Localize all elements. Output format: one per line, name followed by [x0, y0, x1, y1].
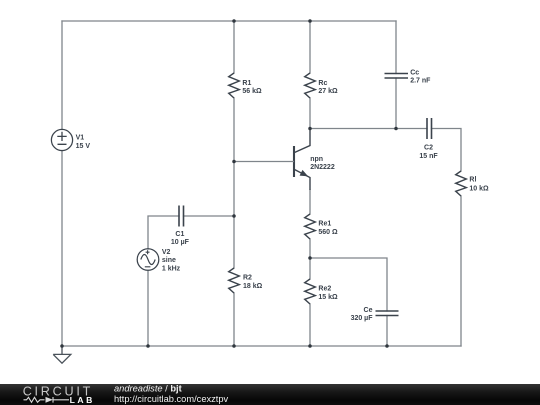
- svg-text:560 Ω: 560 Ω: [318, 229, 338, 236]
- svg-text:LAB: LAB: [70, 395, 95, 405]
- svg-text:2.7 nF: 2.7 nF: [410, 78, 431, 85]
- svg-text:Rc: Rc: [318, 80, 327, 87]
- svg-text:andreadiste / bjt: andreadiste / bjt: [114, 384, 182, 393]
- svg-text:18 kΩ: 18 kΩ: [243, 283, 263, 290]
- svg-text:320 µF: 320 µF: [351, 315, 374, 322]
- svg-text:15 kΩ: 15 kΩ: [318, 294, 338, 301]
- svg-text:2N2222: 2N2222: [310, 164, 335, 171]
- svg-text:V1: V1: [76, 134, 85, 141]
- svg-text:1 kHz: 1 kHz: [162, 265, 181, 272]
- svg-text:15 nF: 15 nF: [419, 153, 438, 160]
- svg-text:http://circuitlab.com/cexztpv: http://circuitlab.com/cexztpv: [114, 394, 229, 404]
- svg-text:Re2: Re2: [318, 286, 331, 293]
- svg-text:C2: C2: [424, 144, 433, 151]
- svg-text:npn: npn: [310, 156, 323, 163]
- svg-text:10 kΩ: 10 kΩ: [469, 186, 489, 193]
- svg-text:Cc: Cc: [410, 69, 419, 76]
- svg-text:15 V: 15 V: [76, 143, 91, 150]
- svg-text:Ce: Ce: [364, 307, 373, 314]
- svg-text:Re1: Re1: [318, 221, 331, 228]
- svg-text:27 kΩ: 27 kΩ: [318, 88, 338, 95]
- svg-text:Rl: Rl: [469, 176, 476, 183]
- svg-text:R2: R2: [243, 274, 252, 281]
- svg-text:sine: sine: [162, 257, 176, 264]
- svg-text:C1: C1: [175, 231, 184, 238]
- svg-text:56 kΩ: 56 kΩ: [242, 88, 262, 95]
- svg-text:R1: R1: [242, 80, 251, 87]
- svg-text:V2: V2: [162, 249, 171, 256]
- svg-text:10 µF: 10 µF: [171, 239, 190, 246]
